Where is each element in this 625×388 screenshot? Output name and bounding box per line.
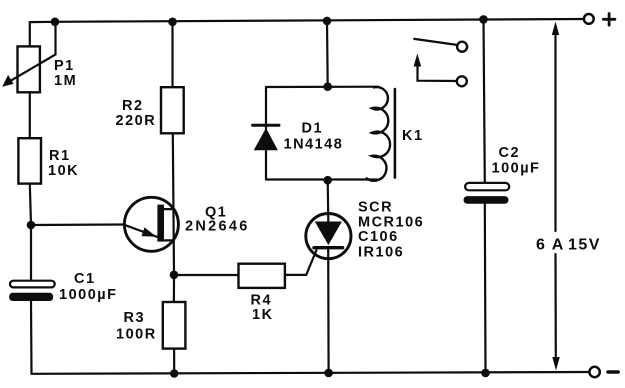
wire top rail to relay loop — [326, 21, 329, 87]
svg-text:100R: 100R — [116, 327, 157, 343]
wire P1 to R1 — [29, 92, 31, 138]
svg-text:K1: K1 — [402, 128, 424, 144]
wire top rail — [54, 19, 584, 22]
label P1 1M — [54, 58, 77, 89]
wire R3 to bottom rail — [173, 349, 175, 374]
resistor R4 — [239, 264, 285, 288]
junction top rail D1 branch — [323, 17, 332, 26]
resistor R1 — [18, 138, 41, 183]
svg-text:6 A: 6 A — [536, 237, 565, 254]
node B1 junction — [170, 271, 179, 280]
terminal + — [584, 14, 615, 26]
svg-text:1N4148: 1N4148 — [284, 137, 344, 153]
svg-text:C2: C2 — [499, 145, 521, 161]
wire C2 branch top — [484, 19, 485, 183]
junction top rail C2 branch — [479, 15, 488, 24]
relay K1 core line — [394, 89, 397, 178]
label R3 100R — [116, 310, 157, 343]
wire node to R3 — [173, 275, 175, 302]
capacitor C2 — [464, 183, 510, 204]
svg-text:C106: C106 — [358, 229, 399, 245]
potentiometer P1 — [2, 22, 55, 93]
switch relay contact bottom — [414, 54, 467, 87]
wire top rail to R2 junction — [168, 18, 177, 27]
SCR (thyristor) — [306, 214, 351, 259]
wire C1 to bottom rail — [30, 301, 33, 374]
junction C2 bottom — [481, 369, 490, 378]
wire top-left branch to P1 — [30, 22, 55, 47]
label C2 100uF — [492, 145, 541, 177]
wire node B1 to R4 — [174, 274, 239, 276]
junction relay bottom — [323, 176, 332, 185]
label Q1 2N2646 — [185, 205, 250, 235]
svg-text:C1: C1 — [74, 271, 96, 287]
switch relay contact top — [414, 39, 467, 52]
svg-text:1K: 1K — [252, 307, 274, 323]
terminal - — [589, 367, 618, 377]
wire bottom rail — [32, 372, 590, 374]
wire node A to C1 — [30, 225, 32, 281]
wire junction to R2 — [171, 22, 173, 87]
svg-text:220R: 220R — [116, 113, 157, 129]
svg-text:1000µF: 1000µF — [59, 287, 117, 303]
svg-text:1M: 1M — [54, 73, 77, 89]
wire R1 to node A — [30, 184, 31, 225]
wire C2 to bottom rail — [484, 204, 487, 373]
wire R4 to SCR gate — [285, 250, 317, 275]
junction relay top — [323, 82, 332, 91]
wire relay loop left — [265, 87, 267, 180]
wire R2 to Q1 base line down to R3 node — [173, 133, 174, 274]
label R4 1K — [251, 293, 274, 324]
junction R3 bottom — [170, 369, 179, 378]
wire emitter from node A — [31, 223, 123, 226]
wire SCR cathode to bottom rail — [327, 248, 330, 373]
svg-text:R2: R2 — [122, 98, 144, 114]
transistor Q1 (UJT 2N2646) — [123, 197, 178, 251]
svg-text:10K: 10K — [48, 163, 79, 179]
svg-text:SCR: SCR — [358, 200, 393, 216]
svg-text:100µF: 100µF — [492, 161, 541, 177]
junction SCR bottom — [324, 369, 333, 378]
svg-text:D1: D1 — [302, 121, 324, 137]
svg-text:15V: 15V — [568, 237, 601, 254]
label C1 1000uF — [59, 271, 117, 303]
svg-text:IR106: IR106 — [358, 245, 404, 261]
label K1 — [402, 128, 424, 144]
label R2 220R — [116, 98, 157, 129]
wire relay loop bottom — [266, 178, 377, 180]
svg-text:R3: R3 — [124, 310, 146, 326]
junction top-left — [51, 18, 60, 27]
diode D1 — [253, 125, 279, 150]
label D1 1N4148 — [284, 121, 344, 153]
label R1 10K — [48, 148, 79, 179]
resistor R2 — [161, 87, 184, 133]
svg-text:R1: R1 — [49, 148, 71, 164]
label 6 A 15V — [536, 237, 601, 254]
svg-text:P1: P1 — [54, 58, 75, 74]
capacitor C1 — [9, 281, 55, 301]
label SCR MCR106 C106 IR106 — [358, 200, 424, 261]
relay coil K1 — [367, 87, 390, 181]
node A junction — [27, 221, 36, 230]
wire relay bottom to SCR anode — [327, 180, 330, 221]
svg-text:2N2646: 2N2646 — [185, 219, 250, 235]
dimension arrow 6A 15V — [552, 22, 560, 371]
wire relay loop top — [266, 86, 377, 89]
resistor R3 — [163, 302, 186, 349]
